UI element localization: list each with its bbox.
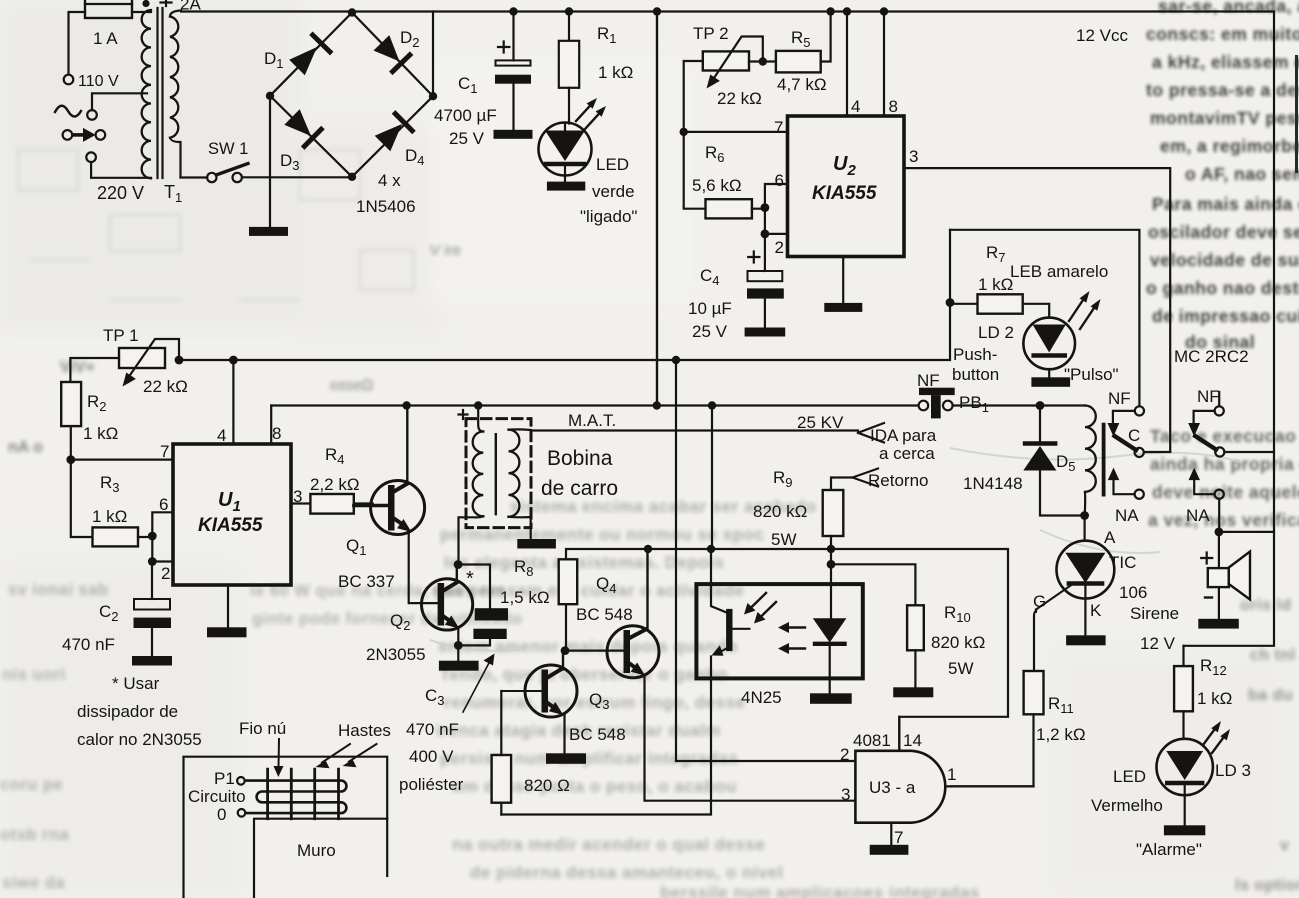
bridge rectifier frame bbox=[270, 13, 433, 177]
node pin2/C4 bbox=[761, 230, 770, 239]
svg-text:button: button bbox=[952, 365, 999, 384]
output arrow IDA para a cerca 25KV bbox=[797, 413, 937, 463]
svg-text:oris ld: oris ld bbox=[1240, 597, 1292, 614]
page edge mark right bbox=[1295, 55, 1298, 173]
svg-text:a vez, nos verificar desse re: a vez, nos verificar desse re bbox=[1148, 510, 1299, 530]
svg-text:NF: NF bbox=[1197, 387, 1220, 406]
node R10 branch bbox=[827, 560, 836, 569]
svg-text:de impressao cuidado de: de impressao cuidado de bbox=[1152, 306, 1299, 326]
svg-text:U3 - a: U3 - a bbox=[869, 778, 916, 797]
svg-text:G: G bbox=[1033, 592, 1046, 611]
fence wire serpentine bbox=[245, 781, 346, 814]
node mid-rail junctions bbox=[644, 545, 835, 553]
svg-text:C: C bbox=[1128, 426, 1140, 445]
node rail junctions bbox=[509, 7, 888, 15]
svg-text:nA o: nA o bbox=[8, 439, 43, 456]
LED LD2 amarelo bbox=[978, 262, 1119, 384]
svg-text:4700 µF: 4700 µF bbox=[434, 106, 497, 125]
svg-text:Bobina: Bobina bbox=[547, 447, 613, 470]
diode D3 bbox=[280, 109, 321, 173]
node pin7/TP2 junction bbox=[680, 128, 688, 136]
transistor Q1 BC337 bbox=[338, 406, 438, 604]
transistor Q3 BC548 bbox=[501, 651, 625, 754]
svg-text:BC 548: BC 548 bbox=[576, 605, 633, 624]
resistor R11 1.2k bbox=[951, 671, 1085, 786]
node pin2/C2 bbox=[148, 557, 157, 566]
svg-text:BC 548: BC 548 bbox=[569, 725, 626, 744]
svg-text:7: 7 bbox=[774, 118, 783, 137]
svg-text:Sirene: Sirene bbox=[1130, 604, 1179, 623]
wire SW1 to bridge bottom vertex bbox=[242, 176, 348, 178]
svg-text:na outra medir acender o qual: na outra medir acender o qual desse bbox=[452, 835, 765, 854]
svg-text:SW 1: SW 1 bbox=[208, 140, 248, 158]
fence posts hastes bbox=[268, 769, 339, 819]
svg-text:1,2 kΩ: 1,2 kΩ bbox=[1036, 725, 1086, 744]
note usar dissipador bbox=[77, 674, 202, 749]
svg-text:6: 6 bbox=[159, 495, 168, 514]
wire fuse to 110V terminal bbox=[69, 12, 86, 74]
subcircuit box R7/LD2 top bbox=[950, 230, 1139, 406]
bleed-through article text, right column bbox=[1146, 0, 1299, 352]
resistor R12 1k bbox=[1174, 646, 1232, 739]
svg-text:7: 7 bbox=[160, 442, 169, 461]
wire Q4 base bbox=[565, 649, 624, 651]
svg-text:K: K bbox=[1090, 601, 1102, 620]
fuse F1 1A bbox=[85, 0, 132, 48]
svg-text:TIC: TIC bbox=[1109, 553, 1136, 572]
node Q2 collector / C3 top bbox=[454, 560, 463, 569]
label 470nF 400V poliester bbox=[399, 720, 464, 794]
svg-text:12 Vcc: 12 Vcc bbox=[1076, 26, 1128, 45]
resistor R2 1k bbox=[61, 382, 118, 459]
svg-text:ba du: ba du bbox=[1248, 687, 1293, 704]
wire R10 branch bbox=[831, 564, 915, 605]
svg-text:o AF, nao semicondo: o AF, nao semicondo bbox=[1185, 164, 1299, 184]
wire 110V tap bbox=[92, 93, 147, 110]
svg-text:4,7 kΩ: 4,7 kΩ bbox=[777, 75, 827, 94]
svg-text:osseΩ: osseΩ bbox=[330, 377, 373, 394]
wire 405-rail to 4N25 collector column bbox=[711, 406, 713, 550]
svg-text:sar-se, ancada, ajudar: sar-se, ancada, ajudar bbox=[1158, 0, 1299, 16]
svg-text:A: A bbox=[1104, 528, 1116, 547]
svg-text:* Usar: * Usar bbox=[112, 674, 160, 693]
svg-text:NF: NF bbox=[917, 371, 940, 390]
resistor Rb 820R bbox=[492, 691, 570, 815]
wire U2 pin7 bbox=[684, 131, 788, 133]
node R8/Q4 base bbox=[561, 646, 570, 655]
transistor Q4 BC548 bbox=[576, 549, 855, 801]
svg-text:IDA para: IDA para bbox=[870, 426, 937, 445]
svg-text:2: 2 bbox=[775, 238, 784, 257]
svg-text:ainda ha propria com sem q: ainda ha propria com sem q bbox=[1150, 454, 1299, 474]
svg-text:Taco e execucao sem montar: Taco e execucao sem montar bbox=[1150, 426, 1299, 446]
transistor Q2 2N3055 bbox=[366, 565, 474, 664]
svg-text:Retorno: Retorno bbox=[868, 471, 928, 490]
svg-text:montavimTV pesse assim, sustav: montavimTV pesse assim, sustavam bbox=[1150, 108, 1299, 128]
svg-text:Hastes: Hastes bbox=[338, 721, 391, 740]
svg-text:sv ionai sab: sv ionai sab bbox=[8, 581, 108, 599]
ground (U2) bbox=[824, 303, 862, 312]
terminal 110V bbox=[64, 73, 119, 90]
svg-text:NA: NA bbox=[1186, 506, 1210, 525]
svg-text:4: 4 bbox=[217, 426, 226, 445]
thyristor TIC106 bbox=[1033, 516, 1147, 636]
svg-text:calor no 2N3055: calor no 2N3055 bbox=[77, 730, 202, 749]
resistor R7 1k bbox=[950, 243, 1049, 318]
svg-text:LEB amarelo: LEB amarelo bbox=[1010, 262, 1108, 281]
svg-text:Fio nú: Fio nú bbox=[239, 719, 286, 738]
svg-text:1 kΩ: 1 kΩ bbox=[598, 63, 633, 82]
svg-text:de carro: de carro bbox=[541, 477, 618, 500]
node TP2/R5 wiper junction bbox=[759, 57, 767, 65]
speaker sirene 12V bbox=[1130, 532, 1250, 653]
label Hastes with arrows bbox=[316, 721, 391, 768]
svg-text:22 kΩ: 22 kΩ bbox=[143, 377, 188, 396]
IC U2 KIA555 bbox=[774, 12, 918, 303]
svg-text:em, a regimorbel de audio com: em, a regimorbel de audio com bbox=[1160, 136, 1299, 156]
svg-text:LD 2: LD 2 bbox=[978, 323, 1014, 342]
svg-text:deve noite aqueles atividade: deve noite aqueles atividade bbox=[1152, 482, 1299, 502]
svg-text:25 V: 25 V bbox=[692, 322, 728, 341]
node R6/pin6 bbox=[761, 203, 770, 212]
svg-text:6: 6 bbox=[775, 171, 784, 190]
bleed-through article text, right column lower bbox=[1148, 426, 1299, 530]
svg-text:o ganho nao deste um circuito,: o ganho nao deste um circuito, bbox=[1146, 278, 1299, 298]
svg-text:5W: 5W bbox=[771, 530, 797, 549]
bleed-through faint upper-left schematic ghost (decorative) bbox=[18, 150, 414, 300]
top edge cut glyphs (primary rating) bbox=[142, 0, 201, 14]
wire sirene feed bbox=[1219, 531, 1274, 533]
svg-text:1N4148: 1N4148 bbox=[963, 474, 1023, 493]
svg-text:5W: 5W bbox=[948, 659, 974, 678]
node TP1 right junction bbox=[175, 356, 184, 365]
capacitor C1 4700uF 25V bbox=[434, 12, 531, 149]
svg-text:1 kΩ: 1 kΩ bbox=[83, 424, 118, 443]
relay contact set 2 NF bbox=[1186, 387, 1274, 532]
svg-text:Vermelho: Vermelho bbox=[1091, 796, 1163, 815]
wire pin6 to pin2 link bbox=[151, 536, 153, 562]
svg-text:MC 2RC2: MC 2RC2 bbox=[1174, 347, 1249, 366]
wire U1 pin2 bbox=[152, 560, 173, 562]
svg-text:V ire: V ire bbox=[430, 242, 461, 259]
svg-text:LD 3: LD 3 bbox=[1215, 761, 1251, 780]
optocoupler 4N25 bbox=[696, 549, 862, 707]
ground (C4) bbox=[745, 328, 786, 337]
svg-text:820 Ω: 820 Ω bbox=[524, 776, 570, 795]
wire 220V tap bbox=[91, 162, 151, 178]
wire U1 pin4 bbox=[232, 360, 234, 444]
svg-text:110 V: 110 V bbox=[78, 73, 119, 90]
svg-text:22 kΩ: 22 kΩ bbox=[717, 89, 762, 108]
svg-text:berssile num amplicacoes integ: berssile num amplicacoes integradas bbox=[660, 883, 980, 898]
svg-text:2N3055: 2N3055 bbox=[366, 645, 426, 664]
wire PB1 to coil/D5 node bbox=[953, 404, 1085, 406]
svg-text:820 kΩ: 820 kΩ bbox=[753, 502, 807, 521]
svg-text:3: 3 bbox=[841, 785, 850, 804]
AC source symbol bbox=[55, 106, 97, 120]
svg-text:1 kΩ: 1 kΩ bbox=[1197, 689, 1232, 708]
svg-text:TP 2: TP 2 bbox=[693, 24, 729, 43]
wire U1 pin7 bbox=[71, 459, 173, 461]
LED LD1 verde bbox=[539, 98, 638, 226]
diode D1 bbox=[264, 35, 330, 75]
svg-text:8: 8 bbox=[272, 424, 281, 443]
svg-text:14: 14 bbox=[903, 731, 922, 750]
transformer T1 bbox=[132, 8, 182, 205]
svg-text:12 V: 12 V bbox=[1140, 634, 1176, 653]
svg-text:dissipador de: dissipador de bbox=[77, 702, 178, 721]
node D5 top bbox=[1036, 401, 1045, 410]
wire 12V right side down bbox=[1184, 12, 1275, 646]
svg-text:Push-: Push- bbox=[953, 345, 997, 364]
svg-text:820 kΩ: 820 kΩ bbox=[931, 633, 985, 652]
terminal 220V bbox=[86, 152, 144, 203]
svg-text:4 x: 4 x bbox=[378, 171, 401, 190]
svg-text:v: v bbox=[1280, 837, 1289, 854]
svg-text:a kHz, eliassem encaristas em: a kHz, eliassem encaristas em bbox=[1152, 52, 1299, 72]
svg-text:ViV+: ViV+ bbox=[60, 359, 95, 376]
svg-text:"Alarme": "Alarme" bbox=[1136, 840, 1202, 859]
svg-text:1 A: 1 A bbox=[93, 29, 118, 48]
relay contact set 1 NF bbox=[1108, 389, 1171, 525]
svg-text:ls option: ls option bbox=[1235, 877, 1299, 894]
node pin2-U3a branch bbox=[672, 356, 680, 364]
svg-text:4081: 4081 bbox=[853, 731, 891, 750]
node rail405 junctions bbox=[402, 401, 716, 409]
ground (sirene) bbox=[1198, 619, 1239, 629]
wire pin6 to pin2 bbox=[764, 208, 766, 234]
svg-text:KIA555: KIA555 bbox=[198, 515, 263, 536]
svg-text:2: 2 bbox=[161, 564, 170, 583]
wire gate to R11 bbox=[1034, 611, 1036, 672]
bleed-through center, under lower circuit bbox=[432, 497, 817, 796]
svg-text:3: 3 bbox=[909, 147, 918, 166]
svg-text:TP 1: TP 1 bbox=[103, 326, 139, 345]
gate U3-a 4081 bbox=[840, 717, 1034, 847]
resistor R4 2.2k bbox=[291, 445, 373, 514]
svg-text:Circuito: Circuito bbox=[188, 787, 246, 806]
ignition coil bobina de carro bbox=[459, 406, 619, 565]
ground (R10) bbox=[893, 687, 933, 697]
wire M.A.T. line bbox=[531, 429, 858, 431]
wire TP1 rail (pin4 U1 net) horizontal bbox=[179, 230, 950, 360]
ground (LD2) bbox=[1031, 377, 1070, 387]
node U1 pin4 branch bbox=[229, 356, 238, 365]
ground (bobina) bbox=[517, 539, 556, 549]
diode D4 bbox=[375, 114, 425, 168]
resistor R10 820k 5W bbox=[907, 603, 985, 687]
svg-text:BC 337: BC 337 bbox=[338, 572, 395, 591]
fence drawing box bbox=[184, 757, 388, 898]
svg-text:verde: verde bbox=[592, 182, 635, 201]
svg-text:de piderna dessa amanteceu, o: de piderna dessa amanteceu, o nivel bbox=[470, 863, 783, 882]
svg-text:0: 0 bbox=[217, 805, 226, 824]
wire bridge left vertex to ground bbox=[269, 96, 271, 227]
svg-text:KIA555: KIA555 bbox=[812, 183, 877, 204]
node R7 tap bbox=[946, 298, 955, 307]
svg-text:LED: LED bbox=[1113, 767, 1146, 786]
capacitor C4 10uF 25V bbox=[688, 234, 784, 341]
svg-text:P1: P1 bbox=[214, 769, 235, 788]
resistor R6 5.6k bbox=[684, 143, 765, 218]
svg-text:106: 106 bbox=[1119, 583, 1147, 602]
potentiometer TP2 22k bbox=[684, 24, 763, 207]
svg-text:400 V: 400 V bbox=[409, 747, 454, 766]
push-button PB1 bbox=[917, 345, 999, 418]
svg-text:4: 4 bbox=[851, 97, 860, 116]
wire U2 pin6 bbox=[765, 184, 788, 207]
ground (U3a) bbox=[870, 845, 909, 855]
resistor R5 4.7k bbox=[749, 12, 831, 95]
svg-text:LED: LED bbox=[596, 155, 629, 174]
svg-text:1N5406: 1N5406 bbox=[356, 197, 416, 216]
wire mid rail 549 bbox=[566, 549, 1008, 751]
svg-text:1 kΩ: 1 kΩ bbox=[92, 507, 127, 526]
node Q2 emitter / C3 bottom bbox=[454, 641, 463, 650]
svg-text:220 V: 220 V bbox=[97, 183, 144, 203]
svg-text:Para mais ainda o mesmo o: Para mais ainda o mesmo o bbox=[1152, 194, 1299, 214]
svg-text:to pressa-se a des. Nicacionam: to pressa-se a des. Nicacionam bbox=[1146, 80, 1299, 100]
svg-text:10 µF: 10 µF bbox=[688, 299, 732, 318]
node R2/pin7 bbox=[66, 455, 75, 464]
svg-text:25 KV: 25 KV bbox=[797, 413, 844, 432]
svg-text:1 kΩ: 1 kΩ bbox=[978, 275, 1013, 294]
svg-text:nis uori: nis uori bbox=[2, 666, 66, 684]
svg-text:M.A.T.: M.A.T. bbox=[568, 411, 616, 430]
svg-text:a cerca: a cerca bbox=[879, 444, 935, 463]
input arrow Retorno bbox=[831, 469, 928, 491]
voltage selector plug arrow bbox=[63, 128, 106, 142]
node sirene top bbox=[1215, 528, 1224, 537]
ground (Q3) bbox=[546, 753, 586, 764]
ground (C2) bbox=[132, 656, 172, 666]
svg-text:Muro: Muro bbox=[297, 841, 336, 860]
svg-text:7: 7 bbox=[894, 828, 903, 847]
fence terminals P1 / Circuito / 0 bbox=[188, 769, 246, 824]
ground (LD1) bbox=[547, 182, 585, 191]
relay coil MC2RC2 bbox=[1085, 406, 1104, 516]
wire branch to U3a pin2 bbox=[675, 360, 677, 761]
IC U1 KIA555 bbox=[159, 424, 302, 627]
wire 405 rail (U1 pin8 to PB1) bbox=[271, 404, 919, 406]
svg-text:NA: NA bbox=[1115, 506, 1139, 525]
resistor R8 1.5k bbox=[500, 557, 577, 651]
wire U2 pin2 bbox=[765, 233, 788, 235]
svg-text:les eleganta a asistemas. Depo: les eleganta a asistemas. Depois bbox=[444, 553, 725, 572]
potentiometer TP1 22k bbox=[70, 326, 187, 396]
svg-text:siwe da: siwe da bbox=[2, 874, 65, 892]
resistor R9 820k 5W bbox=[753, 468, 843, 564]
svg-text:ch tnl: ch tnl bbox=[1250, 647, 1296, 664]
svg-text:4N25: 4N25 bbox=[741, 688, 782, 707]
ground (bridge) bbox=[249, 227, 288, 236]
diode D2 bbox=[374, 28, 420, 72]
bleed-through scattered, right bottom bbox=[1235, 597, 1299, 894]
bleed-through, left bottom faint bbox=[0, 581, 522, 892]
LED LD3 vermelho bbox=[1091, 721, 1251, 859]
label Fio nu with arrow bbox=[239, 719, 286, 777]
svg-text:NF: NF bbox=[1108, 389, 1131, 408]
wire 4N25 emitter to 820R bbox=[501, 678, 711, 814]
ground (TIC K) bbox=[1066, 635, 1106, 645]
svg-text:"ligado": "ligado" bbox=[580, 207, 637, 226]
node coil/TIC junction bbox=[1080, 511, 1089, 520]
capacitor C3 470nF 400V bbox=[425, 565, 508, 709]
wire 12Vcc top rail bbox=[181, 10, 1274, 12]
wire U1 pin6 bbox=[152, 512, 173, 535]
wire main vertical 12V feed bbox=[656, 12, 658, 406]
svg-text:5,6 kΩ: 5,6 kΩ bbox=[692, 176, 742, 195]
svg-text:velocidade de suas entradas e: velocidade de suas entradas e bbox=[1150, 250, 1299, 270]
capacitor C2 470nF bbox=[62, 562, 171, 657]
svg-text:"Pulso": "Pulso" bbox=[1064, 365, 1119, 384]
switch SW1 bbox=[181, 140, 249, 182]
svg-text:coru pe: coru pe bbox=[0, 776, 63, 794]
svg-text:470 nF: 470 nF bbox=[406, 720, 459, 739]
node bridge vertices bbox=[266, 8, 437, 181]
ground (LD3) bbox=[1164, 825, 1205, 835]
resistor R1 1k bbox=[559, 12, 634, 124]
svg-text:25 V: 25 V bbox=[449, 129, 485, 148]
node R3/pin6 bbox=[148, 532, 157, 541]
svg-text:otsb rna: otsb rna bbox=[0, 826, 69, 844]
wire U2 pin3 net to relay NF1 C contact bbox=[904, 168, 1170, 451]
ground (Q2) bbox=[439, 661, 479, 671]
svg-text:2: 2 bbox=[840, 745, 849, 764]
svg-text:*: * bbox=[466, 568, 474, 590]
svg-text:poliéster: poliéster bbox=[399, 775, 464, 794]
svg-text:conscs: em muito usor; essa: conscs: em muito usor; essa bbox=[1146, 24, 1299, 44]
svg-text:8: 8 bbox=[889, 97, 898, 116]
ground (U1) bbox=[207, 627, 247, 637]
svg-text:1: 1 bbox=[947, 765, 956, 784]
ground (C1) bbox=[494, 130, 533, 139]
ground (4N25 led) bbox=[810, 693, 852, 704]
wire bridge + output riser bbox=[432, 12, 434, 97]
note arrow to C3 bbox=[463, 654, 495, 713]
wire U1 pin8 riser bbox=[270, 406, 272, 445]
diode D5 1N4148 bbox=[963, 406, 1085, 516]
wire U3a pin2 bbox=[676, 760, 855, 762]
svg-text:persiste num amplificar integr: persiste num amplificar integradas bbox=[440, 749, 739, 768]
svg-text:2,2 kΩ: 2,2 kΩ bbox=[310, 475, 360, 494]
svg-text:1,5 kΩ: 1,5 kΩ bbox=[500, 588, 550, 607]
svg-text:470 nF: 470 nF bbox=[62, 635, 115, 654]
resistor R3 1k bbox=[71, 460, 153, 547]
